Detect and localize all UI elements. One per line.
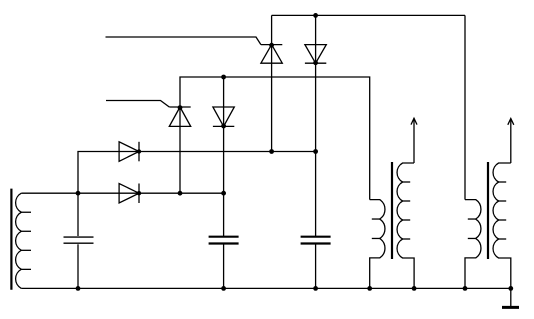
node dot D3 cathode: [137, 149, 141, 153]
wire vertical G2 (C1 branch): [77, 193, 79, 236]
gate lead G2: [106, 101, 169, 108]
node dot V2 cathode/gate: [178, 105, 183, 110]
wire bus y151 with left corner down: [78, 152, 316, 194]
node dot bus193 x180: [178, 191, 183, 196]
diode D4: [119, 184, 139, 204]
transformer T2 secondary: [493, 163, 511, 288]
node dot T2 secondary bottom: [508, 286, 513, 291]
wire top bus: [272, 14, 465, 16]
wire bus y193: [21, 192, 223, 194]
transformer T1 primary: [370, 200, 385, 289]
wire vertical A (SCR V1 branch): [271, 15, 273, 151]
wire vertical B (diode D1 branch): [315, 15, 317, 236]
node dot D1 cathode: [313, 60, 318, 65]
wire vertical E (diode D2 / C2 branch): [223, 77, 225, 236]
node dot bus151 x315: [313, 149, 318, 154]
arrow T1 output: [411, 118, 417, 163]
transformer T1 secondary: [397, 163, 414, 288]
diode D2: [213, 107, 234, 126]
transformer T1 core: [391, 162, 393, 259]
ground: [502, 288, 519, 307]
node dot bus151 x271: [269, 149, 274, 154]
gate lead G1: [106, 37, 261, 45]
node dot bus193 x78: [76, 191, 81, 196]
wire vertical C (to T2 primary): [464, 15, 466, 199]
transformer T2 core: [487, 162, 489, 259]
diode D1: [305, 45, 326, 64]
capacitor C3: [301, 237, 331, 244]
node dot C1 bottom: [76, 286, 81, 291]
node dot V1 cathode/gate: [269, 43, 274, 48]
node dot C2 bottom: [221, 286, 226, 291]
node dot T1 secondary bottom: [412, 286, 417, 291]
node dot D2 cathode: [221, 124, 226, 129]
inductor L1 winding: [16, 193, 22, 288]
capacitor C2: [209, 237, 239, 244]
node dot T1 primary bottom: [367, 286, 372, 291]
node dot T2 primary bottom: [463, 286, 468, 291]
thyristor V1: [261, 45, 282, 64]
node dot top bus junction: [313, 13, 318, 18]
thyristor V2: [169, 107, 190, 126]
transformer T2 primary: [465, 200, 481, 289]
wire mid bus y77 with corners: [180, 77, 370, 200]
wire bottom bus: [21, 287, 511, 289]
node dot C3 bottom: [313, 286, 318, 291]
inductor L1 core: [10, 189, 12, 290]
capacitor C1: [64, 237, 94, 243]
node dot D4 cathode: [137, 191, 141, 195]
node dot bus193 x223: [221, 191, 226, 196]
diode D3: [119, 142, 139, 162]
arrow T2 output: [508, 119, 514, 164]
node dot mid bus junction: [221, 75, 226, 80]
